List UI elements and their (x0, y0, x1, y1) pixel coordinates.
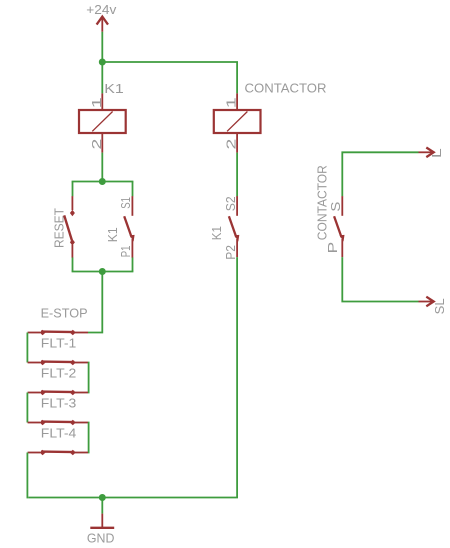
switch FLT-3 (28, 420, 88, 426)
svg-text:P: P (326, 242, 340, 254)
wire FLT-2 to FLT-3 left (26, 393, 28, 423)
svg-text:P1: P1 (119, 245, 133, 257)
wire S2 to bottom rail (28, 257, 237, 497)
svg-text:E-STOP: E-STOP (41, 306, 88, 320)
svg-text:FLT-2: FLT-2 (41, 366, 77, 380)
wire loop right lower (132, 258, 134, 272)
pin arrow SL (419, 297, 434, 307)
wire FLT-3 to FLT-4 right (87, 423, 90, 453)
svg-text:K1: K1 (106, 227, 120, 242)
wire loop bottom horizontal (72, 271, 134, 273)
K1 pin 1 stub (101, 93, 103, 110)
wire loop left upper (72, 182, 74, 197)
svg-text:+24v: +24v (86, 3, 117, 17)
pin arrow L (419, 148, 434, 158)
relay coil CONTACTOR (214, 110, 261, 133)
switch FLT-1 (28, 360, 88, 366)
wire +24v to main junction (101, 32, 103, 62)
junction ground node (99, 494, 106, 501)
wire contactor switch branch top (342, 152, 418, 196)
switch S1 contact (124, 196, 134, 258)
switch E-STOP (28, 330, 88, 336)
svg-text:K1: K1 (210, 226, 224, 240)
ground (90, 514, 114, 528)
svg-text:S1: S1 (119, 197, 133, 209)
wire contactor switch branch bottom (342, 257, 418, 301)
wire FLT-1 to FLT-2 right (87, 363, 90, 393)
wire junction to contactor branch (102, 62, 237, 93)
svg-text:FLT-3: FLT-3 (41, 396, 77, 410)
svg-text:L: L (430, 148, 444, 158)
relay coil K1 (79, 110, 126, 133)
svg-text:S2: S2 (224, 196, 238, 211)
svg-text:K1: K1 (104, 82, 124, 96)
switch FLT-2 (28, 390, 88, 396)
wire loop right upper (132, 182, 134, 197)
wire FLT-4 to bottom rail (26, 453, 28, 499)
switch RESET (64, 196, 75, 258)
junction loop bottom (99, 268, 106, 275)
junction node top (99, 59, 106, 66)
switch FLT-4 (28, 450, 88, 456)
junction loop top (99, 178, 106, 185)
svg-text:CONTACTOR: CONTACTOR (245, 81, 327, 95)
switch CONTACTOR contact (334, 196, 344, 257)
svg-text:SL: SL (433, 298, 447, 314)
svg-text:S: S (329, 202, 343, 212)
wire loop top horizontal (72, 181, 134, 183)
K1 pin 2 stub (101, 133, 103, 153)
wire loop left lower (72, 258, 74, 272)
svg-text:CONTACTOR: CONTACTOR (315, 165, 329, 240)
switch S2 contact (229, 196, 239, 257)
contactor coil pin 1 stub (236, 93, 238, 110)
svg-text:GND: GND (87, 531, 115, 545)
wire junction to K1 pin 1 (101, 62, 103, 93)
wire K1 pin2 to loop top (101, 153, 103, 182)
svg-text:P2: P2 (224, 245, 238, 260)
wire E-STOP to FLT-1 left (26, 333, 28, 363)
wire contactor pin2 to switch S2 (236, 153, 238, 197)
contactor coil pin 2 stub (236, 133, 238, 153)
+24v power symbol (97, 17, 108, 32)
wire junction to ground symbol (101, 498, 103, 514)
wire loop bottom to E-STOP row (88, 272, 102, 333)
svg-text:FLT-1: FLT-1 (41, 336, 77, 350)
svg-text:RESET: RESET (53, 208, 67, 248)
svg-text:FLT-4: FLT-4 (41, 426, 77, 440)
